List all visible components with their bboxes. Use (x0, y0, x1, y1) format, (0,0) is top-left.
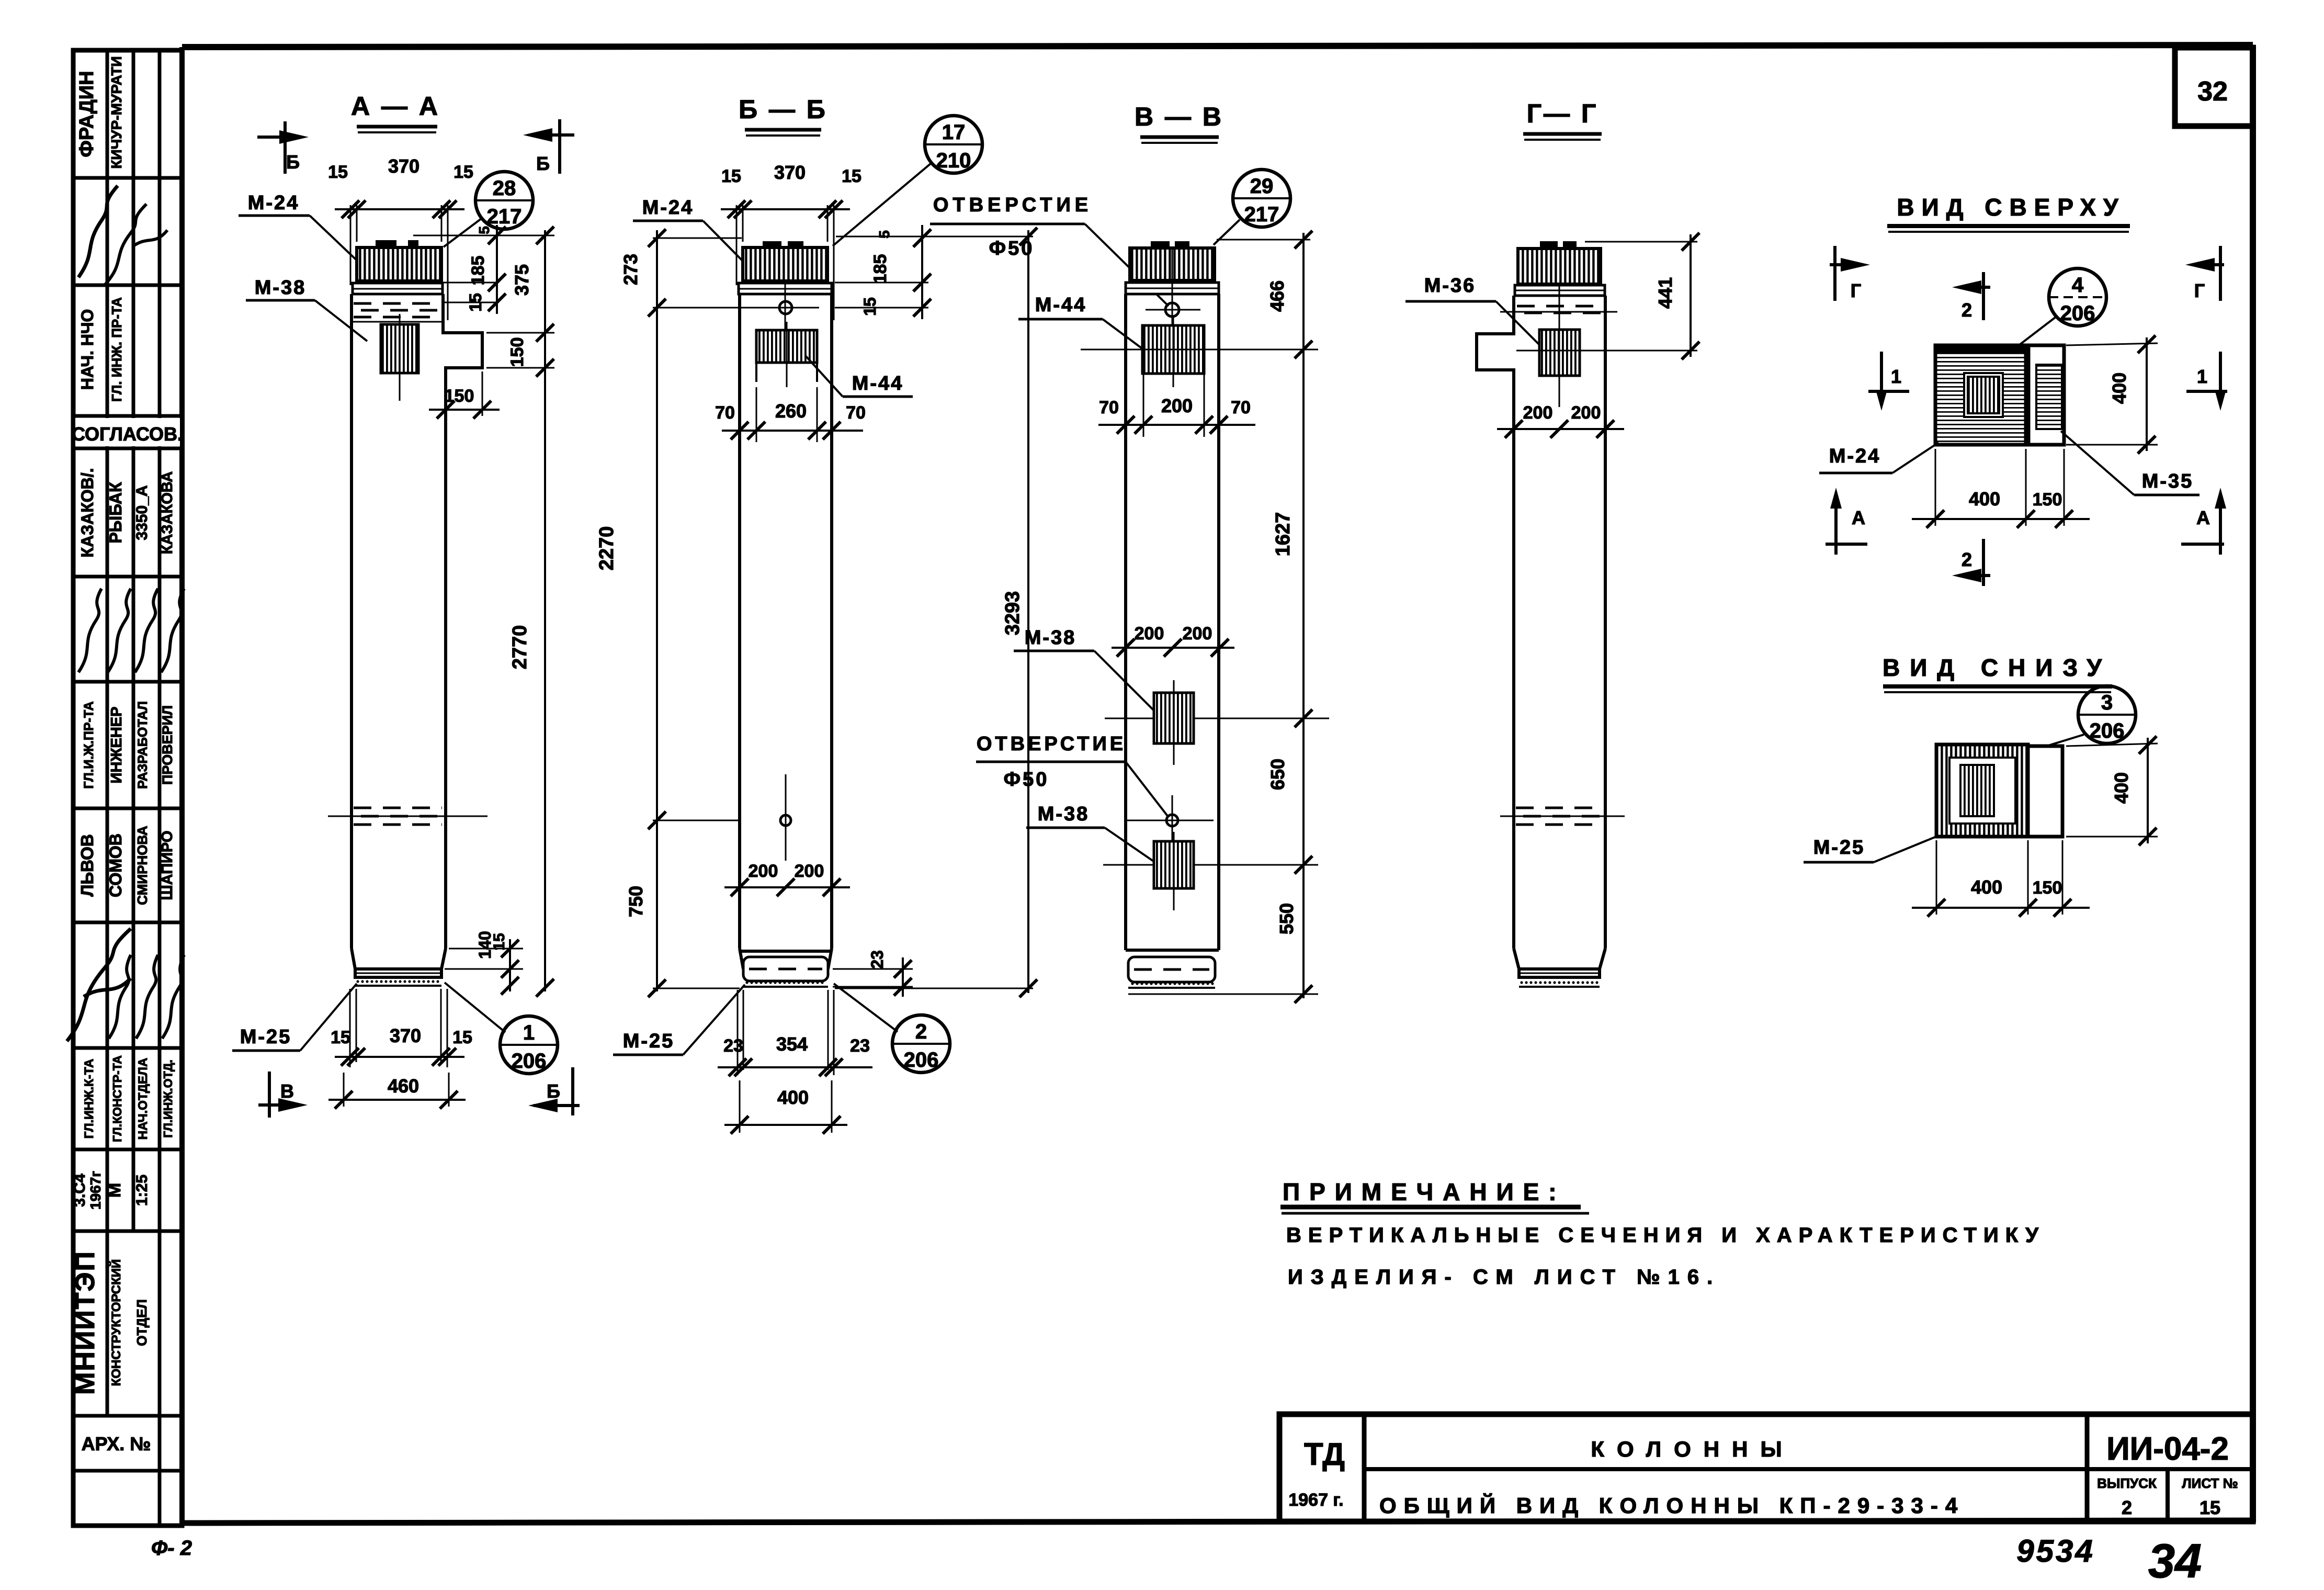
svg-text:КАЗАКОВА: КАЗАКОВА (159, 471, 176, 555)
plan top: dim 400 (right) (2066, 335, 2158, 454)
plan top: detail circle 4/206 with leader (2006, 268, 2106, 355)
plan top: section marker G (right) (2185, 246, 2224, 301)
view V-V: lifting hole lower (1125, 795, 1214, 842)
svg-text:М-38: М-38 (255, 277, 307, 299)
svg-text:НАЧ.ОТДЕЛА: НАЧ.ОТДЕЛА (136, 1058, 150, 1140)
view B-B: base plate thickness dim 23 (833, 950, 913, 997)
svg-text:ГЛ.И.Ж.ПР-ТА: ГЛ.И.Ж.ПР-ТА (82, 701, 96, 788)
plan bottom: label M-25 with leader (1804, 836, 1937, 862)
view V-V: detail circle 29/217 with leader (1214, 170, 1290, 245)
svg-text:15: 15 (842, 166, 861, 186)
svg-text:23: 23 (868, 950, 887, 969)
svg-text:15: 15 (466, 293, 485, 312)
svg-text:15: 15 (328, 162, 348, 182)
svg-text:М-38: М-38 (1038, 803, 1090, 825)
svg-text:260: 260 (775, 400, 807, 422)
view A-A: section title (351, 92, 440, 132)
view V-V: anchor block M-38 upper (hatched) (1154, 680, 1194, 765)
view B-B: dim 70|260|70 (715, 387, 866, 442)
view B-B: label M-24 with leader (633, 197, 747, 265)
plan top: section marker G (left) (1830, 246, 1870, 301)
svg-text:70: 70 (715, 403, 735, 423)
view A-A: corbel width dim 150 (429, 371, 500, 419)
svg-text:АРХ. №: АРХ. № (82, 1433, 151, 1454)
svg-text:3: 3 (2101, 691, 2113, 714)
view A-A: bottom dim 460 (328, 1073, 466, 1109)
svg-text:ШАПИРО: ШАПИРО (159, 831, 176, 900)
svg-text:1967 г.: 1967 г. (1288, 1490, 1343, 1510)
svg-text:ПРОВЕРИЛ: ПРОВЕРИЛ (160, 705, 175, 785)
svg-text:СОГЛАСОВ.: СОГЛАСОВ. (72, 423, 183, 445)
svg-text:ГЛ. ИНЖ. ПР-ТА: ГЛ. ИНЖ. ПР-ТА (109, 297, 124, 402)
svg-text:441: 441 (1654, 277, 1676, 309)
view V-V: column shaft edges (1126, 294, 1219, 950)
view B-B: column cap anchor plate M-24 (hatched) (743, 241, 827, 281)
svg-text:М-25: М-25 (1813, 837, 1865, 859)
svg-text:206: 206 (512, 1050, 547, 1073)
view B-B: top dimension 15|370|15 (721, 162, 861, 320)
plan top: bottom dims 400|150 (1912, 449, 2090, 528)
svg-text:М: М (105, 1183, 124, 1198)
svg-text:ВЕРТИКАЛЬНЫЕ СЕЧЕНИЯ И ХАРАКТЕ: ВЕРТИКАЛЬНЫЕ СЕЧЕНИЯ И ХАРАКТЕРИСТИКУ (1286, 1224, 2045, 1247)
svg-text:КАЗАКОВ/.: КАЗАКОВ/. (78, 468, 97, 557)
svg-text:70: 70 (1099, 398, 1119, 418)
view V-V: anchor block M-38 lower (hatched) (1154, 832, 1194, 910)
plan bottom: side strip part (2028, 746, 2062, 837)
svg-text:750: 750 (625, 886, 647, 917)
svg-text:400: 400 (1969, 488, 2000, 510)
view A-A: section marker B bottom-right (528, 1067, 580, 1115)
svg-text:29: 29 (1250, 175, 1274, 198)
view B-B: lifting hole (top) (755, 301, 819, 314)
view A-A: middle hidden-hole dashed band (328, 808, 488, 825)
view A-A: label M-25 with leaders (232, 984, 357, 1051)
svg-text:М-24: М-24 (1829, 445, 1881, 467)
view A-A: label M-24 with leader (239, 192, 362, 265)
view A-A: detail circle 28/217 (444, 172, 533, 247)
svg-text:23: 23 (850, 1036, 870, 1056)
svg-text:М-44: М-44 (1035, 294, 1087, 316)
svg-text:5: 5 (476, 226, 492, 234)
svg-text:ЛЬВОВ: ЛЬВОВ (77, 834, 97, 896)
svg-text:150: 150 (445, 386, 474, 406)
svg-text:185: 185 (870, 254, 890, 284)
view A-A: detail circle 1/206 with leader (445, 983, 558, 1074)
view V-V: lifting hole top (1146, 303, 1200, 317)
svg-text:Г: Г (2194, 280, 2205, 301)
view G-G: bottom taper and base plate (1514, 949, 1605, 987)
svg-text:206: 206 (2090, 719, 2125, 742)
svg-text:1:25: 1:25 (133, 1175, 151, 1206)
svg-text:32: 32 (2197, 76, 2228, 107)
view A-A: cap flange (353, 283, 443, 294)
svg-text:СМИРНОВА: СМИРНОВА (134, 826, 150, 905)
view A-A: top dimension 15|370|15 (328, 155, 473, 320)
svg-text:ИНЖЕНЕР: ИНЖЕНЕР (108, 707, 125, 784)
svg-text:М-35: М-35 (2142, 470, 2194, 492)
svg-text:М-38: М-38 (1025, 627, 1076, 649)
table cell: signature row 2 (78, 589, 184, 672)
svg-text:375: 375 (511, 264, 532, 296)
view B-B: dim 200|200 above base (724, 858, 850, 896)
svg-text:200: 200 (1571, 403, 1601, 423)
table cell: signature pair (top) (78, 186, 167, 285)
svg-text:400: 400 (2111, 772, 2132, 804)
svg-text:КОЛОННЫ: КОЛОННЫ (1591, 1437, 1794, 1461)
svg-text:ГЛ.КОНСТР-ТА: ГЛ.КОНСТР-ТА (110, 1055, 124, 1142)
view B-B: detail circle 2/206 with leader (834, 984, 950, 1073)
svg-text:370: 370 (388, 155, 420, 177)
svg-text:ГЛ.ИНЖ.К-ТА: ГЛ.ИНЖ.К-ТА (82, 1059, 96, 1139)
view V-V: cap flange (1126, 248, 1219, 330)
svg-text:4: 4 (2072, 274, 2084, 297)
svg-text:А — А: А — А (351, 92, 440, 121)
svg-text:23: 23 (723, 1036, 743, 1056)
svg-text:Ф- 2: Ф- 2 (151, 1537, 192, 1560)
view A-A: section marker B top-left (257, 121, 309, 174)
view B-B: bottom taper and base plate M-25 (740, 949, 832, 987)
view G-G: section title (1523, 99, 1602, 140)
view G-G: dim 200|200 (1497, 403, 1624, 441)
view G-G: column right edge (1604, 296, 1607, 949)
plan bottom: dim 400 (right) (2066, 736, 2158, 845)
svg-text:А: А (1852, 507, 1865, 528)
table cell: signature row 3 (67, 929, 184, 1041)
svg-text:200: 200 (795, 861, 824, 881)
view A-A: section marker B top-right (523, 119, 574, 174)
note: Primechanie heading (1280, 1178, 1589, 1213)
svg-text:2270: 2270 (596, 526, 618, 571)
svg-text:217: 217 (487, 205, 522, 228)
plan bottom: bottom dims 400|150 (1912, 840, 2090, 917)
svg-text:А: А (2196, 507, 2210, 528)
svg-text:15: 15 (860, 297, 879, 316)
title block frame (1279, 1414, 2253, 1521)
view B-B: left dim chain 273/2270/750 (596, 229, 755, 997)
view G-G: middle hidden-hole dashed band (1500, 808, 1625, 825)
svg-text:200: 200 (1523, 403, 1553, 423)
svg-text:СОМОВ: СОМОВ (106, 833, 125, 897)
view A-A: column cap anchor plate M-24 (hatched) (357, 240, 441, 281)
svg-text:15: 15 (331, 1028, 350, 1047)
svg-text:650: 650 (1267, 759, 1288, 790)
svg-text:Ф50: Ф50 (989, 238, 1035, 260)
svg-text:РАЗРАБОТАЛ: РАЗРАБОТАЛ (135, 701, 150, 789)
left stamp table grid (73, 50, 182, 1526)
svg-text:КОНСТРУКТОРСКИЙ: КОНСТРУКТОРСКИЙ (109, 1259, 123, 1386)
view V-V: column cap anchor plate (hatched) (1130, 241, 1215, 280)
svg-text:Б — Б: Б — Б (739, 95, 827, 124)
title block: list cell (2182, 1475, 2238, 1518)
svg-text:400: 400 (777, 1087, 809, 1108)
svg-text:354: 354 (776, 1033, 808, 1055)
plan top: side console part with M-35 strip (2028, 345, 2064, 445)
svg-text:ГЛ.ИНЖ.ОТД.: ГЛ.ИНЖ.ОТД. (161, 1059, 175, 1137)
plan bottom: detail circle 3/206 with leader (2030, 686, 2136, 751)
title block: org TD / year (1288, 1437, 1345, 1510)
svg-text:15: 15 (454, 162, 473, 182)
svg-text:15: 15 (2200, 1497, 2220, 1518)
svg-text:200: 200 (1135, 624, 1164, 644)
svg-text:206: 206 (2060, 302, 2095, 325)
svg-text:ИЗДЕЛИЯ- СМ ЛИСТ №16.: ИЗДЕЛИЯ- СМ ЛИСТ №16. (1288, 1266, 1720, 1289)
svg-text:17: 17 (942, 121, 966, 144)
svg-text:15: 15 (721, 166, 741, 186)
svg-text:200: 200 (1183, 624, 1212, 644)
svg-text:3293: 3293 (1002, 591, 1024, 636)
svg-text:550: 550 (1276, 903, 1297, 934)
svg-text:200: 200 (1161, 395, 1193, 416)
svg-text:М-24: М-24 (642, 197, 694, 219)
svg-text:466: 466 (1266, 280, 1288, 312)
view B-B: column shaft edges (740, 294, 832, 949)
svg-text:370: 370 (774, 162, 806, 183)
svg-text:200: 200 (749, 861, 778, 881)
svg-text:3.С4: 3.С4 (71, 1174, 88, 1207)
view B-B: bottom dim 400 (724, 1080, 847, 1134)
view A-A: column left edge (350, 294, 353, 949)
view B-B: right dim chain 5/185/15 (835, 225, 931, 319)
plan top: section marker 1 (left) (1868, 352, 1909, 411)
svg-text:150: 150 (2033, 878, 2062, 898)
plan top: label M-24 with leader (1819, 443, 1938, 473)
view A-A: column right edge with corbel (443, 294, 482, 949)
plan top: section marker 1 (right) (2186, 352, 2227, 411)
view B-B: bottom dim 23|354|23 (718, 990, 872, 1076)
svg-text:Б: Б (536, 153, 550, 174)
svg-text:273: 273 (620, 254, 641, 285)
svg-text:210: 210 (936, 149, 971, 172)
svg-text:ОТДЕЛ: ОТДЕЛ (134, 1299, 150, 1346)
view B-B: overall dim 3293 (835, 228, 1037, 997)
svg-text:1: 1 (2197, 366, 2207, 387)
svg-text:150: 150 (507, 337, 527, 367)
view V-V: bottom base with plate (1126, 950, 1219, 988)
view V-V: anchor block M-44 (hatched) (1142, 317, 1204, 387)
view B-B: detail circle 17/210 with leader (833, 116, 982, 246)
view G-G: anchor block M-36 (hatched) (1539, 285, 1580, 407)
svg-text:М-36: М-36 (1424, 275, 1476, 297)
svg-text:70: 70 (846, 403, 866, 423)
label Otverstie F50 (upper) with leader (930, 194, 1169, 306)
svg-text:ИИ-04-2: ИИ-04-2 (2106, 1431, 2229, 1467)
svg-text:ТД: ТД (1304, 1437, 1345, 1472)
view V-V: dim chain 466/1627/650/550 (right) (1081, 231, 1329, 1003)
svg-text:150: 150 (2033, 490, 2062, 510)
view V-V: label M-44 with leader (1018, 294, 1143, 349)
plan top: section marker 2 (bottom) (1952, 539, 1990, 586)
svg-text:15: 15 (452, 1028, 472, 1047)
svg-text:400: 400 (2108, 373, 2130, 404)
svg-text:2: 2 (915, 1020, 927, 1043)
view B-B: anchor block M-44 (hatched) (756, 322, 817, 387)
svg-text:Ф50: Ф50 (1004, 769, 1049, 791)
svg-text:1627: 1627 (1272, 512, 1294, 557)
view G-G: dim 441 (right) (1516, 233, 1699, 359)
svg-text:ФРАДИН: ФРАДИН (76, 71, 98, 157)
title block: vypusk cell (2097, 1475, 2157, 1518)
svg-text:В: В (280, 1080, 294, 1102)
svg-text:Г— Г: Г— Г (1527, 99, 1599, 128)
svg-text:РЫБАК: РЫБАК (106, 482, 125, 544)
svg-text:70: 70 (1231, 398, 1251, 418)
svg-text:МНИИТЭП: МНИИТЭП (70, 1250, 100, 1395)
plan view bottom: title VID SNIZU (1883, 654, 2112, 692)
svg-text:460: 460 (388, 1075, 419, 1097)
view V-V: dim 200|200 (mid anchors) (1112, 624, 1234, 657)
svg-text:2: 2 (2122, 1497, 2132, 1518)
svg-text:2: 2 (1962, 299, 1972, 321)
view A-A: right dim chain 375/150/2770 (486, 227, 554, 997)
svg-text:185: 185 (468, 256, 488, 286)
plan top: column head plate (hatched horizontally) (1935, 345, 2026, 445)
plan view top: title VID SVERHU (1887, 194, 2130, 232)
svg-text:ОТВЕРСТИЕ: ОТВЕРСТИЕ (933, 194, 1092, 216)
svg-text:2: 2 (1962, 549, 1972, 570)
view A-A: bottom right dim 140/15 (445, 931, 523, 995)
svg-text:3350_А: 3350_А (133, 485, 151, 540)
svg-text:1: 1 (523, 1021, 535, 1044)
svg-text:217: 217 (1244, 203, 1279, 226)
svg-text:ВИД СВЕРХУ: ВИД СВЕРХУ (1897, 194, 2125, 221)
view G-G: collar dashed rows (1500, 306, 1617, 320)
svg-text:ЛИСТ №: ЛИСТ № (2182, 1475, 2238, 1491)
view B-B: middle lifting hole (780, 774, 791, 861)
label Otverstie F50 (lower) with leader (976, 733, 1169, 817)
svg-text:М-25: М-25 (240, 1026, 292, 1048)
plan top: section marker A (bottom-right) (2181, 488, 2226, 555)
svg-text:34: 34 (2148, 1535, 2202, 1588)
table band: SOGLASOV. (75, 418, 180, 446)
view A-A: anchor block M-38 (hatched) (381, 314, 418, 401)
svg-text:1967г: 1967г (87, 1171, 104, 1210)
plan top: section marker A (bottom-left) (1826, 488, 1867, 555)
svg-text:ВЫПУСК: ВЫПУСК (2097, 1475, 2157, 1491)
svg-text:ПРИМЕЧАНИЕ:: ПРИМЕЧАНИЕ: (1283, 1178, 1566, 1205)
view V-V: section title (1135, 102, 1223, 143)
view A-A: collar dashed rows (352, 303, 443, 322)
svg-text:370: 370 (390, 1025, 421, 1046)
svg-text:1: 1 (1891, 366, 1901, 387)
svg-text:15: 15 (491, 933, 508, 950)
svg-text:ВИД СНИЗУ: ВИД СНИЗУ (1883, 654, 2112, 681)
view A-A: bottom taper and base plate M-25 (352, 949, 446, 986)
svg-text:ОТВЕРСТИЕ: ОТВЕРСТИЕ (977, 733, 1126, 755)
view B-B: cap flange (739, 283, 832, 335)
view G-G: column left edge with corbel (left) (1477, 296, 1514, 949)
sheet number box 32 (top right) (2175, 48, 2253, 126)
view G-G: label M-36 with leader (1405, 275, 1544, 349)
svg-text:М-25: М-25 (623, 1030, 675, 1052)
svg-text:Б: Б (547, 1080, 560, 1102)
svg-text:Б: Б (286, 151, 300, 173)
svg-text:9534: 9534 (2016, 1533, 2094, 1569)
svg-text:В — В: В — В (1135, 102, 1223, 131)
view A-A: section marker B bottom-left (258, 1072, 308, 1118)
svg-text:Г: Г (1851, 280, 1861, 301)
view G-G: column cap anchor plate (hatched) (1518, 241, 1601, 284)
svg-text:206: 206 (904, 1048, 939, 1072)
view B-B: section title (739, 95, 827, 136)
svg-text:М-24: М-24 (248, 192, 300, 214)
plan top: label M-35 with leader (2061, 431, 2200, 495)
view V-V: dim 70|200|70 (1098, 374, 1255, 437)
view A-A: label M-38 with leader (246, 277, 367, 341)
view B-B: label M-44 with leader (806, 356, 913, 397)
plan bottom: column foot plate (hatched) (1936, 745, 2028, 837)
view G-G: cap flange (1515, 285, 1605, 296)
view V-V: label M-38 (lower) with leader (1026, 803, 1155, 862)
plan top: section marker 2 (top) (1952, 272, 1990, 321)
svg-text:НАЧ. НЧО: НАЧ. НЧО (78, 309, 97, 390)
svg-text:КИЧУР-МУРАТИ: КИЧУР-МУРАТИ (108, 56, 124, 168)
svg-text:2770: 2770 (509, 625, 531, 670)
view B-B: label M-25 with leader (613, 985, 745, 1055)
view A-A: right dim chain 5/185/15 (413, 225, 554, 314)
svg-text:28: 28 (493, 177, 516, 200)
svg-text:М-44: М-44 (852, 373, 904, 394)
svg-text:400: 400 (1971, 876, 2002, 898)
view V-V: label M-38 (upper) with leader (1014, 627, 1155, 712)
svg-text:ОБЩИЙ ВИД КОЛОННЫ КП-29-33-4: ОБЩИЙ ВИД КОЛОННЫ КП-29-33-4 (1379, 1493, 1965, 1518)
view A-A: bottom dim 15|370|15 (331, 989, 472, 1067)
